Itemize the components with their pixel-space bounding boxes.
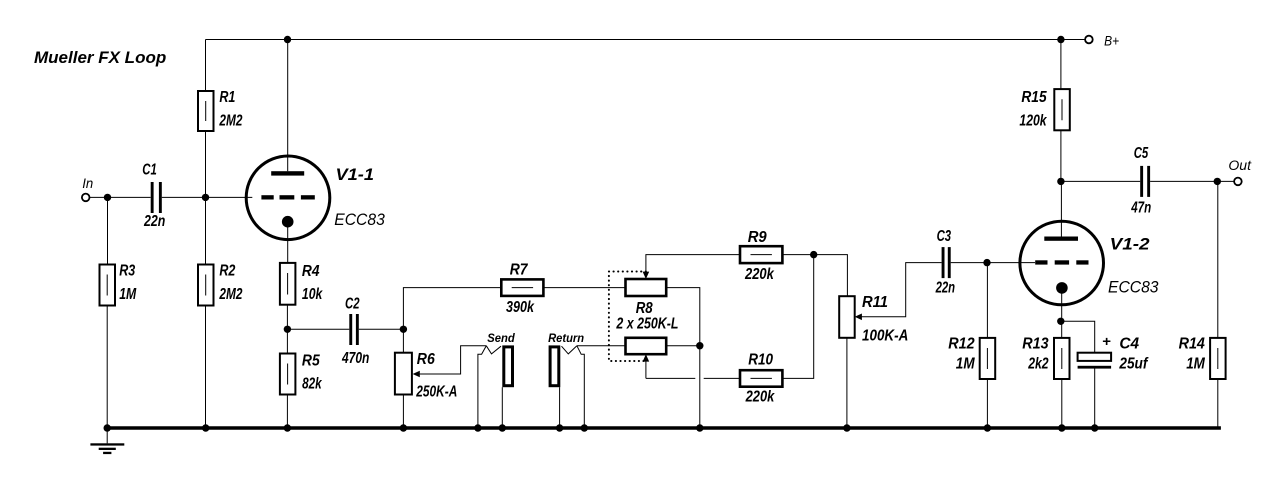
wire anode node to C5 [1061,180,1140,182]
svg-text:ECC83: ECC83 [334,210,385,229]
wire R3 bottom to ground rail [106,306,108,429]
V1-1 cathode lead [287,225,289,263]
wire R10 right up to summing node [782,255,813,379]
svg-text:220k: 220k [744,266,775,283]
node rail Send body [499,424,506,431]
svg-text:10k: 10k [302,286,323,303]
V1-2 cathode dot [1056,282,1068,294]
resistor R13 [1022,336,1069,379]
svg-text:C1: C1 [142,161,157,178]
svg-text:R3: R3 [119,262,135,279]
R8 upper wiper arrow [643,255,740,279]
svg-text:Send: Send [487,331,515,345]
wire R5 bottom to ground rail [286,395,288,429]
wire node down to R6 [402,329,404,352]
wire cathode node down to R13 [1061,321,1063,338]
wire Send sleeve to ground rail [501,387,503,428]
label tube V1-1 [334,165,385,229]
wire Return to R8 lower [577,345,626,347]
wire R1 top drop [205,40,207,92]
wire cathode node to C4 [1061,321,1095,352]
jack Return body [550,347,559,386]
svg-text:470n: 470n [341,350,369,367]
wire R2 bottom to ground rail [205,306,207,429]
svg-text:R10: R10 [748,352,773,369]
node rail C4 [1091,424,1098,431]
resistor R10 [740,352,782,406]
svg-text:ECC83: ECC83 [1108,278,1159,297]
node rail R8 [696,424,703,431]
terminal Out [1228,157,1252,185]
terminal In [82,175,93,201]
svg-text:1M: 1M [1186,356,1205,373]
svg-text:R11: R11 [862,294,888,311]
resistor R4 [280,263,323,305]
wire R8 upper right to mix node [666,288,700,346]
wire R7 to R8 upper [543,287,625,289]
node B+ junction [1057,36,1064,43]
capacitor C2 [341,296,369,368]
node In junction [104,194,111,201]
svg-text:Out: Out [1228,157,1252,173]
node rail R13 [1058,424,1065,431]
tube V1-1 triode envelope [246,156,330,240]
svg-text:250K-A: 250K-A [416,383,458,400]
resistor R14 [1179,336,1226,379]
svg-text:82k: 82k [302,376,322,393]
svg-text:C3: C3 [937,228,952,245]
resistor R9 [740,229,782,283]
V1-1 cathode dot [282,216,294,228]
svg-text:C4: C4 [1119,336,1139,353]
tube V1-2 triode envelope [1020,221,1104,305]
wire R8 lower right to mix node [666,345,700,347]
ground [90,428,124,454]
V1-2 anode lead [1060,181,1062,236]
wire top node down to R15 [1060,40,1062,90]
svg-text:R12: R12 [948,336,974,353]
terminal B+ [1085,33,1119,49]
svg-text:R15: R15 [1021,89,1047,106]
svg-text:Return: Return [548,331,584,345]
node rail Return sleeve [581,424,588,431]
svg-text:+: + [1102,333,1111,349]
wire R4 to node [286,305,288,354]
wire grid node down to R12 [986,263,988,338]
R8 lower wiper arrow [643,354,650,378]
wire R8 lower wiper to R10 with hop [646,377,740,379]
node rail R6 [400,424,407,431]
svg-text:22n: 22n [143,213,165,230]
node cathode divider [284,326,291,333]
svg-text:1M: 1M [956,356,975,373]
potentiometer R8 upper section [626,279,667,296]
node summing junction [810,251,817,258]
resistor R3 [100,262,137,305]
svg-text:R5: R5 [302,352,321,369]
jack Return spring contact [548,331,584,428]
wire C3 to grid node V1-2 [951,262,987,264]
wire R13 bottom to ground rail [1061,379,1063,428]
label R8 [616,300,679,333]
svg-text:R1: R1 [219,89,235,106]
svg-text:V1-1: V1-1 [336,165,375,184]
wire C2 to R6 node [359,328,404,330]
V1-2 anode plate [1044,237,1078,241]
capacitor C3 [935,228,955,297]
label tube V1-2 [1108,234,1159,296]
wire R11 bottom to ground rail [846,338,848,428]
wire summing node to R11 top [814,255,848,297]
wire R6 bottom to ground rail [402,395,404,429]
node rail R5 [284,424,291,431]
svg-text:R2: R2 [219,262,235,279]
potentiometer R8 lower section [626,338,667,354]
wire node up to R7 level [403,288,501,330]
wire R14 bottom to rail end [1217,379,1219,428]
svg-text:R6: R6 [417,351,435,368]
node anode top junction [284,36,291,43]
node rail Return body [556,424,563,431]
wire grid node into tube [206,196,253,198]
svg-text:R8: R8 [636,300,653,317]
resistor R2 [198,262,242,305]
wire grid node into tube V1-2 [987,262,1035,264]
wire R12 bottom to ground rail [986,379,988,428]
node grid V1-2 [983,259,990,266]
svg-text:R4: R4 [302,263,320,280]
wire R15 bottom to anode node [1060,130,1062,181]
svg-text:47n: 47n [1130,199,1151,216]
svg-text:C5: C5 [1134,145,1149,162]
svg-text:R13: R13 [1022,336,1048,353]
wire node to C2 [287,328,349,330]
resistor R5 [280,352,322,394]
wire Out node down to R14 [1217,181,1219,338]
svg-text:R14: R14 [1179,336,1205,353]
wire R1 bottom to grid node [205,131,207,265]
capacitor C1 [142,161,165,229]
node Out junction [1214,178,1221,185]
resistor R1 [198,89,242,131]
wire C1 to grid node [162,196,206,198]
svg-text:C2: C2 [345,296,360,313]
node rail R12 [984,424,991,431]
capacitor C5 [1130,145,1151,216]
node rail Send sleeve [474,424,481,431]
svg-text:100K-A: 100K-A [862,327,908,344]
wire top B+ rail [206,39,1085,41]
node R8 mix junction [696,342,703,349]
node rail R3 [104,424,111,431]
jack Send spring contact [478,331,515,428]
svg-text:120k: 120k [1019,113,1047,130]
wire mix node to ground rail [699,346,701,428]
svg-text:25uf: 25uf [1119,356,1149,373]
V1-1 anode lead [287,40,289,172]
svg-text:In: In [82,175,93,191]
svg-text:2M2: 2M2 [219,286,243,303]
V1-1 anode plate [271,171,304,175]
potentiometer R11 [839,294,908,345]
wire C4 bottom to ground rail [1094,369,1096,429]
resistor R7 [501,262,543,317]
node C2 R6 junction [400,326,407,333]
wire ground rail [107,426,1221,429]
resistor R15 [1019,89,1069,131]
resistor R12 [948,336,995,379]
wire Return body to ground rail [559,387,561,428]
V1-1 grid dashes [261,195,314,199]
V1-2 grid dashes [1035,260,1088,264]
svg-text:1M: 1M [119,286,137,303]
node anode V1-2 junction [1057,178,1064,185]
svg-text:2M2: 2M2 [219,113,243,130]
wire C5 to Out node [1150,180,1234,182]
svg-text:B+: B+ [1104,33,1119,49]
node cathode V1-2 junction [1057,318,1064,325]
capacitor C4 [1078,333,1149,373]
node rail R2 [202,424,209,431]
svg-text:V1-2: V1-2 [1110,234,1151,253]
wire In to node [90,196,151,198]
R6 wiper arrow [413,346,487,378]
svg-text:R9: R9 [748,229,767,246]
node grid V1-1 [202,194,209,201]
svg-text:390k: 390k [506,299,535,316]
wire In node down to R3 [107,197,109,264]
jack Send body [504,347,513,386]
svg-text:Mueller FX Loop: Mueller FX Loop [34,48,166,67]
svg-text:R7: R7 [510,262,529,279]
R8 gang dotted link [609,272,646,362]
svg-text:220k: 220k [745,389,775,406]
V1-2 cathode lead [1061,291,1063,321]
R11 wiper arrow [855,263,942,321]
wire R9 to summing node [782,254,813,256]
node rail R11 [843,424,850,431]
svg-text:2 x 250K-L: 2 x 250K-L [616,316,679,333]
svg-text:22n: 22n [935,280,955,297]
svg-text:2k2: 2k2 [1027,356,1048,373]
potentiometer R6 [395,351,457,400]
